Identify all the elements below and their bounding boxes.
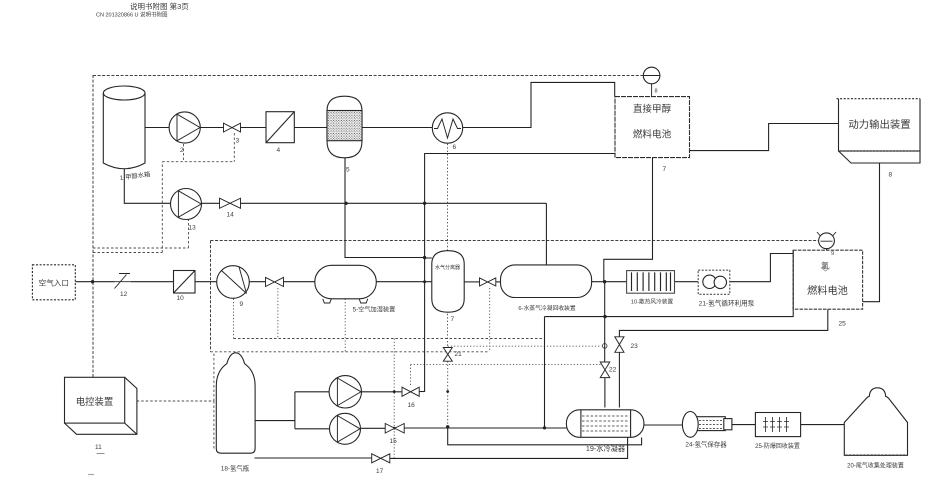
wire anode left drop (544, 317, 546, 428)
svg-text:17: 17 (376, 468, 384, 475)
wire radiator to circulation pump (675, 281, 699, 283)
wire dotted stem valve16 (410, 365, 412, 387)
svg-text:5-空气加湿装置: 5-空气加湿装置 (353, 306, 396, 314)
wire valve16 to return corner (419, 391, 424, 393)
svg-text:水气分离器: 水气分离器 (435, 264, 460, 271)
wire control bus pump2/valve3 (162, 133, 234, 162)
svg-text:8: 8 (889, 172, 893, 179)
wire condensate return to condenser underside (448, 427, 642, 445)
svg-text:5: 5 (346, 167, 350, 174)
svg-text:10-散热风冷装置: 10-散热风冷装置 (631, 298, 674, 306)
svg-text:15: 15 (390, 438, 398, 445)
wire power box down to H2FC (863, 163, 880, 302)
wire dashed controller link (137, 352, 214, 450)
svg-text:23: 23 (631, 343, 639, 350)
wire tank1 bottom to pump13 (124, 169, 170, 203)
svg-text:25-防爆回收装置: 25-防爆回收装置 (755, 442, 800, 450)
valve 14 (220, 198, 241, 208)
wire DMFC left return down (419, 154, 615, 392)
wire valve12 to air filter (131, 281, 174, 283)
wire H2FC bottom out through valve23 to condenser (619, 309, 827, 407)
svg-text:直接甲醇: 直接甲醇 (633, 103, 672, 115)
air filter 10 (174, 271, 196, 294)
svg-text:13: 13 (189, 225, 197, 232)
svg-text:7: 7 (663, 166, 667, 173)
heat exchanger 6 (432, 113, 462, 143)
power output box 8 (837, 99, 921, 163)
radiator 10 (627, 271, 675, 294)
wire valve14 to vessel6 feed (241, 202, 547, 204)
wire control stub to pump 13 (93, 220, 189, 249)
H2 fuel cell box (793, 250, 862, 309)
wire humidifier to vessel7 (376, 281, 432, 283)
svg-text:电控装置: 电控装置 (76, 396, 114, 407)
svg-text:10: 10 (177, 295, 185, 302)
svg-text:说明书附图 第3页: 说明书附图 第3页 (130, 1, 189, 11)
svg-text:20-尾气收集处理装置: 20-尾气收集处理装置 (847, 462, 904, 470)
humidifier 5 (315, 265, 377, 303)
wire valve3 to filter4 (241, 127, 267, 129)
svg-text:9: 9 (240, 301, 244, 308)
svg-text:6: 6 (453, 144, 457, 151)
valve between 7 and 6 (480, 278, 496, 286)
wire inner dashed bus bottom2 (234, 338, 545, 340)
wire pumpB to valve15 (360, 427, 385, 429)
wire control-bus top horizontal (93, 75, 643, 77)
wire anode long horizontal (545, 309, 794, 317)
wire DMFC right to power box (690, 124, 839, 151)
air inlet box (32, 265, 75, 300)
svg-text:19-水冷凝器: 19-水冷凝器 (586, 444, 625, 453)
wire bottle to pump splits (255, 392, 329, 429)
wire storage24 to flame arrestor (732, 424, 756, 426)
wire dotted stem humidifier (344, 299, 346, 352)
wire dotted stem air valve (277, 288, 279, 339)
wire valve15 to condenser left (404, 427, 567, 429)
condenser 19 (566, 410, 644, 438)
wire dotted drop to H2 pumps area (393, 339, 395, 458)
svg-text:9: 9 (831, 251, 834, 257)
DMFC box U7 (615, 97, 690, 158)
wire HX condensate dotted drop (447, 144, 449, 348)
gauge above H2FC (817, 232, 836, 250)
labels component names (221, 298, 904, 473)
wire heat exchanger to DMFC (463, 82, 615, 127)
wire condenser to storage 24 (644, 424, 683, 426)
wire vessel7 to valve (464, 281, 479, 283)
svg-text:空气入口: 空气入口 (39, 278, 69, 288)
wire bottle bottom purge to valve17 (255, 457, 372, 459)
wire inner dashed bus box top (211, 240, 819, 242)
wire filter4 to vaporizer (294, 127, 327, 129)
svg-text:21-氢气循环利用泵: 21-氢气循环利用泵 (699, 299, 755, 308)
hydrogen circulation pump 21 (698, 270, 730, 294)
wire vessel6 top feed (545, 203, 547, 265)
wire pump2 to valve3 (200, 127, 223, 129)
svg-text:14: 14 (227, 212, 235, 219)
wire dotted bus to valve 22 high (448, 345, 602, 347)
wire air valve to humidifier (284, 281, 315, 283)
svg-text:3: 3 (236, 138, 240, 145)
wire vaporizer to heat exchanger (362, 127, 432, 129)
svg-text:燃料电池: 燃料电池 (633, 129, 672, 141)
svg-text:12: 12 (120, 291, 128, 298)
valve 17 (372, 454, 390, 463)
svg-text:动力输出装置: 动力输出装置 (848, 118, 910, 131)
wire pumpA to valve16 (362, 391, 402, 393)
vessel 6 condensate recovery (501, 265, 592, 298)
svg-text:18-氢气瓶: 18-氢气瓶 (221, 464, 250, 473)
svg-text:8: 8 (655, 89, 658, 95)
valve 23 vertical (615, 337, 624, 353)
wire flame arrestor to tail tank (801, 424, 845, 426)
wire condensate dotted below valve21 (447, 361, 449, 426)
svg-text:25: 25 (839, 321, 847, 328)
wire inner dashed bus bottom1 (211, 351, 490, 353)
air valve (266, 277, 284, 286)
control device box 11 (65, 377, 137, 434)
wire dotted stem valve between 7 and 6 (489, 288, 491, 352)
wire control stub to valve bus (93, 162, 162, 253)
svg-text:7: 7 (451, 316, 455, 323)
wire blower to air valve (249, 281, 265, 283)
wire node down through valve22 to condenser (604, 282, 606, 408)
gauge above DMFC (643, 67, 660, 96)
wire dotted stem blower (233, 299, 235, 339)
wire air inlet to valve12 (75, 281, 114, 283)
wire tank1 to pump2 (145, 127, 169, 129)
wire DMFC bottom to air node (604, 158, 653, 281)
svg-text:22: 22 (609, 367, 617, 374)
pump 2 (169, 112, 200, 143)
tank 1 methanol tank (103, 86, 145, 169)
wire valve17 to condenser bottom (390, 438, 628, 459)
pump B lower hydrogen pump (330, 413, 361, 444)
valve 15 (385, 424, 404, 434)
flame arrestor 25 (755, 413, 800, 437)
valve 16 (402, 387, 419, 396)
svg-text:21: 21 (455, 351, 463, 358)
valve 3 (224, 123, 241, 132)
svg-text:4: 4 (277, 147, 281, 154)
svg-text:燃料电池: 燃料电池 (807, 284, 848, 297)
svg-text:2: 2 (180, 147, 184, 154)
svg-text:24-氢气保存器: 24-氢气保存器 (685, 440, 727, 449)
wire vaporizer bottom drop (345, 158, 432, 258)
svg-text:CN 201320866 U 说明书附图: CN 201320866 U 说明书附图 (96, 11, 168, 19)
wire pump13 to valve14 (202, 202, 220, 204)
vaporizer 5 (327, 96, 362, 158)
labels numbers (88, 89, 893, 476)
air blower 9 (217, 266, 250, 299)
hydrogen storage 24 (682, 412, 732, 438)
pump A upper hydrogen pump (329, 376, 361, 408)
tail gas tank 20 (844, 388, 907, 456)
pump 13 (171, 189, 202, 220)
wire air filter to blower (195, 281, 217, 283)
svg-text:6-水蒸气冷凝回收装置: 6-水蒸气冷凝回收装置 (518, 304, 576, 312)
wire circulation pump to H2FC (730, 254, 793, 282)
svg-text:16: 16 (408, 402, 416, 409)
filter 4 (266, 112, 294, 143)
wire control-bus left vertical (92, 75, 94, 377)
junction circle on valve22 line (602, 344, 607, 349)
wire dotted bus to valve 22 low (411, 364, 605, 366)
wire vessel6 outlet to node (592, 281, 627, 283)
valve 22 vertical (600, 362, 610, 378)
valve 12 manual (115, 274, 132, 289)
svg-text:11: 11 (95, 444, 102, 451)
wire inner dashed bus box left (210, 241, 212, 352)
valve 21 vertical (443, 348, 452, 362)
vessel 7 separator (432, 251, 464, 313)
wire valve to vessel6 (496, 281, 501, 283)
hydrogen bottle 18 (216, 353, 255, 453)
